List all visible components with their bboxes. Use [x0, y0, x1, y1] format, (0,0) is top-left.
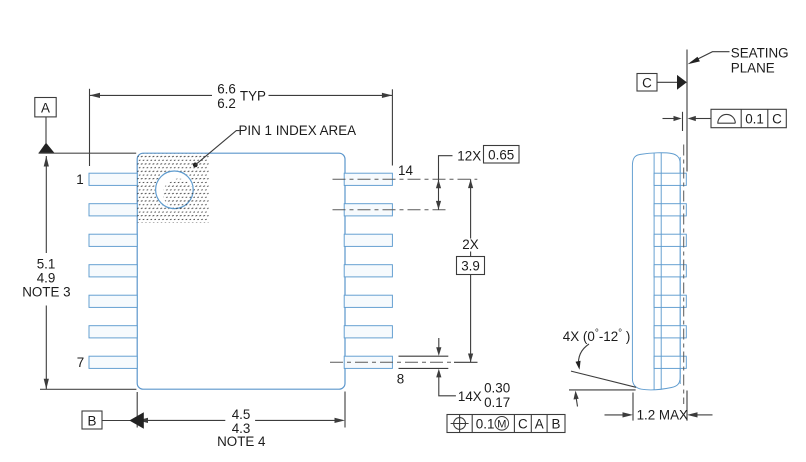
- dimension 1.2 MAX line left: [605, 414, 624, 416]
- pin 8 centerline black segment: [454, 361, 478, 363]
- dimension 12X 0.65 leader: [439, 156, 453, 210]
- svg-text:0.1: 0.1: [745, 111, 764, 126]
- svg-text:NOTE 4: NOTE 4: [217, 434, 266, 449]
- pin 14 centerline: [333, 178, 478, 180]
- svg-text:PIN 1 INDEX AREA: PIN 1 INDEX AREA: [239, 123, 357, 138]
- dimension 4.5/4.3 arrowhead right: [335, 418, 346, 423]
- lead width lower arrow and leader: [439, 376, 456, 395]
- 2X 3.9 arrowhead down: [468, 354, 473, 363]
- svg-text:5.1: 5.1: [37, 257, 56, 272]
- svg-text:1: 1: [76, 172, 83, 187]
- side lead 5: [654, 295, 686, 307]
- dimension 4.5/4.3 extension line left: [136, 392, 138, 428]
- left pin 1: [89, 173, 137, 185]
- side body outline: [632, 153, 680, 390]
- left pin 7: [89, 356, 137, 368]
- flatness callout arrows: [663, 118, 675, 120]
- datum A leader: [45, 117, 47, 143]
- leader line PIN 1 INDEX AREA: [195, 131, 239, 165]
- lead width upper arrow: [438, 338, 440, 349]
- lead angle line: [571, 371, 636, 387]
- body bottom extension line: [40, 388, 136, 390]
- datum C triangle: [677, 75, 687, 90]
- seating plane line: [686, 50, 688, 172]
- seating plane symbol (half disc): [717, 114, 735, 123]
- leader dot for PIN 1 INDEX AREA: [193, 163, 198, 168]
- svg-text:C: C: [642, 75, 652, 90]
- right pin 11: [344, 265, 392, 277]
- side lead 4: [654, 265, 686, 277]
- svg-text:B: B: [552, 416, 561, 431]
- side lead 6: [654, 326, 686, 338]
- svg-text:6.6: 6.6: [217, 81, 236, 96]
- svg-text:C: C: [772, 111, 782, 126]
- package body outline: [137, 153, 345, 389]
- left pin 6: [89, 326, 137, 338]
- right pin 13: [344, 204, 392, 216]
- svg-text:7: 7: [77, 355, 84, 370]
- svg-text:0.30: 0.30: [484, 380, 510, 395]
- dimension 1.2 MAX extension left: [632, 393, 634, 421]
- angle leader arrowhead: [576, 361, 581, 370]
- side body mold line inner: [660, 153, 662, 390]
- pin 13 centerline: [333, 209, 447, 211]
- pin 1 index circle: [156, 171, 194, 209]
- tolerance zone tick: [682, 112, 684, 131]
- dimension 6.6/6.2 arrowhead right: [382, 93, 393, 98]
- svg-text:TYP: TYP: [240, 88, 266, 103]
- dimension 1.2 MAX line right: [697, 414, 713, 416]
- right pin 8: [344, 356, 392, 368]
- svg-text:0.65: 0.65: [488, 147, 514, 162]
- left pin 5: [89, 295, 137, 307]
- dimension 4.5/4.3 extension line right: [344, 392, 346, 428]
- 12X 0.65 arrowhead up: [436, 180, 441, 189]
- feature control frame: [447, 415, 565, 433]
- svg-text:14X: 14X: [458, 389, 482, 404]
- lead width extension line bottom: [399, 367, 449, 369]
- left pin 4: [89, 265, 137, 277]
- right pin 14: [344, 173, 392, 185]
- angle up arrow: [576, 398, 577, 407]
- left pin 3: [89, 234, 137, 246]
- seating plane leader: [691, 52, 730, 63]
- svg-text:4.9: 4.9: [37, 270, 56, 285]
- dimension 6.6/6.2 TYP extension line right: [391, 89, 393, 165]
- svg-text:B: B: [88, 413, 97, 428]
- body top extension line: [39, 152, 137, 154]
- side view centerline: [683, 145, 685, 405]
- pin 1 index hatch area: [137, 153, 208, 223]
- dimension 5.1/4.9 line: [45, 156, 47, 389]
- datum C leader: [657, 81, 678, 83]
- svg-text:2X: 2X: [462, 237, 478, 252]
- datum A triangle: [38, 143, 54, 154]
- svg-text:0.1: 0.1: [476, 416, 495, 431]
- flatness frame: [711, 109, 786, 127]
- seating plane arrowhead: [688, 57, 700, 65]
- dimension 6.6/6.2 TYP line: [90, 94, 393, 96]
- dimension 6.6/6.2 TYP extension line left: [89, 89, 91, 166]
- pin 8 centerline: [330, 361, 452, 363]
- right pin 12: [344, 234, 392, 246]
- datum B triangle: [129, 412, 144, 429]
- svg-text:A: A: [41, 101, 50, 116]
- 12X 0.65 arrowhead down: [436, 201, 441, 210]
- side lead 2: [654, 204, 686, 216]
- dimension 5.1/4.9 arrowhead top: [44, 156, 49, 167]
- dimension 4.5/4.3 arrowhead left: [138, 418, 149, 423]
- datum B leader: [102, 420, 130, 422]
- svg-text:NOTE 3: NOTE 3: [22, 284, 70, 299]
- svg-text:PLANE: PLANE: [731, 60, 775, 75]
- datum B frame: [82, 411, 102, 429]
- svg-text:12X: 12X: [457, 148, 481, 163]
- svg-text:14: 14: [398, 163, 413, 178]
- svg-text:C: C: [518, 416, 528, 431]
- hatch inside circle: [160, 176, 196, 212]
- side lead 3: [654, 234, 686, 246]
- svg-text:1.2 MAX: 1.2 MAX: [637, 407, 688, 422]
- svg-text:6.2: 6.2: [217, 96, 236, 111]
- svg-text:8: 8: [397, 372, 404, 387]
- side lead 7: [654, 356, 686, 368]
- datum A frame: [35, 98, 56, 117]
- boxed value 0.65: [484, 146, 520, 164]
- side body mold line left: [653, 153, 655, 390]
- right pin 9: [344, 326, 392, 338]
- lead width extension line top: [399, 355, 449, 357]
- svg-text:A: A: [535, 416, 544, 431]
- svg-text:M: M: [497, 418, 506, 430]
- 2X 3.9 arrowhead up: [468, 179, 473, 188]
- dimension 5.1/4.9 arrowhead bottom: [44, 379, 49, 390]
- seating reference line: [569, 389, 636, 391]
- svg-text:SEATING: SEATING: [731, 45, 789, 60]
- left pin 2: [89, 204, 137, 216]
- svg-text:0.17: 0.17: [484, 395, 510, 410]
- dimension 6.6/6.2 arrowhead left: [90, 93, 101, 98]
- dimension 4.5/4.3 line: [146, 419, 335, 421]
- angle leader arc: [578, 344, 589, 367]
- position symbol: [454, 418, 466, 430]
- right pin 10: [344, 295, 392, 307]
- dimension 2X 3.9 line: [470, 179, 472, 362]
- datum C frame: [637, 74, 657, 92]
- side body right edge over leads: [679, 157, 681, 384]
- boxed value 3.9: [457, 257, 485, 275]
- side lead 1: [654, 173, 686, 185]
- svg-text:3.9: 3.9: [461, 259, 480, 274]
